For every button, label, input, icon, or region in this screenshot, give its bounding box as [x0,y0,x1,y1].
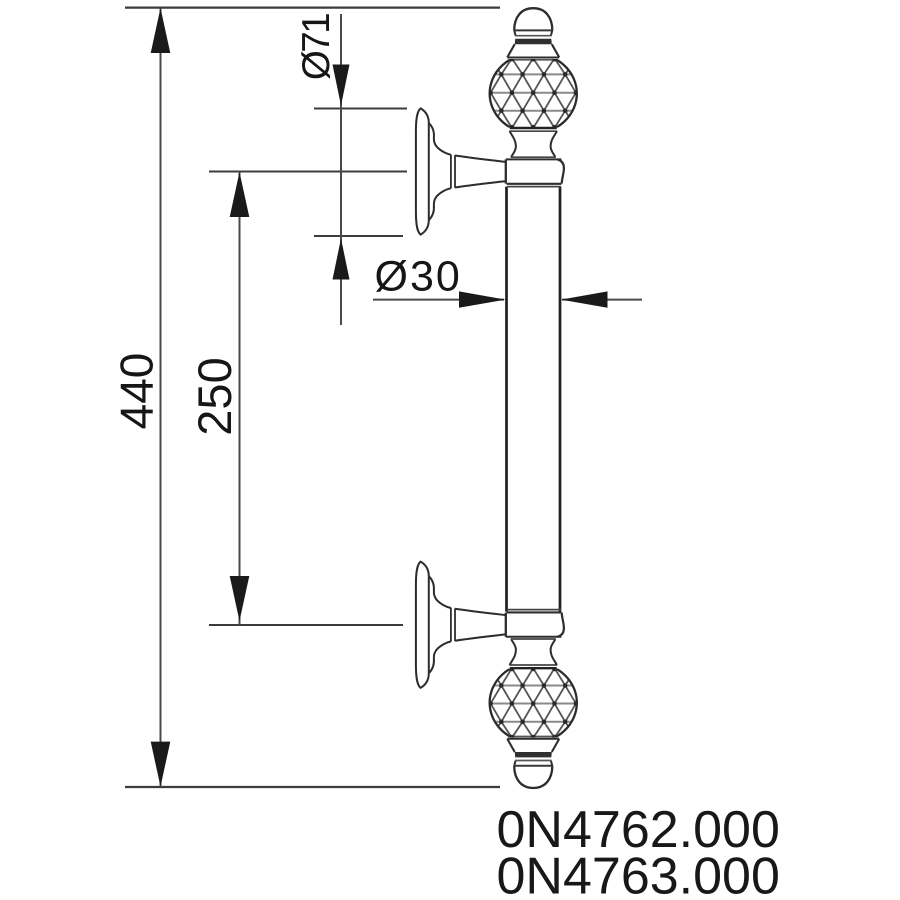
extension line bottom [125,786,500,788]
dimension line 250 [239,172,241,626]
svg-text:Ø71: Ø71 [295,14,338,80]
dimension line 440 [160,8,162,787]
extension line rose top center [209,171,407,173]
handle bar [507,187,561,612]
svg-text:250: 250 [188,357,241,435]
arrow down d71 [333,65,350,106]
extension line rose top upper [314,108,407,110]
bottom finial (mirrored) [455,610,612,788]
extension line top [125,6,500,8]
code 0N4763.000 [497,848,780,900]
bottom rose (mirrored) [416,562,506,688]
dimension line d71 [340,14,342,325]
extension line rose top lower [314,235,403,237]
extension line rose bottom center [209,624,403,626]
arrow left d30 [561,291,608,307]
arrow down 440 [151,742,171,787]
arrow up d71 [333,239,350,280]
code 0N4762.000 [497,801,780,859]
svg-text:0N4763.000: 0N4763.000 [497,848,780,900]
top rose [416,108,506,234]
top finial [455,8,612,186]
arrow up 440 [151,8,171,53]
leader line d30 left [373,299,504,301]
svg-text:440: 440 [111,353,163,430]
svg-text:Ø30: Ø30 [375,253,462,301]
arrow right d30 [459,291,506,307]
leader line d30 right [562,299,642,301]
arrow down 250 [230,576,250,621]
arrow up 250 [230,172,250,217]
